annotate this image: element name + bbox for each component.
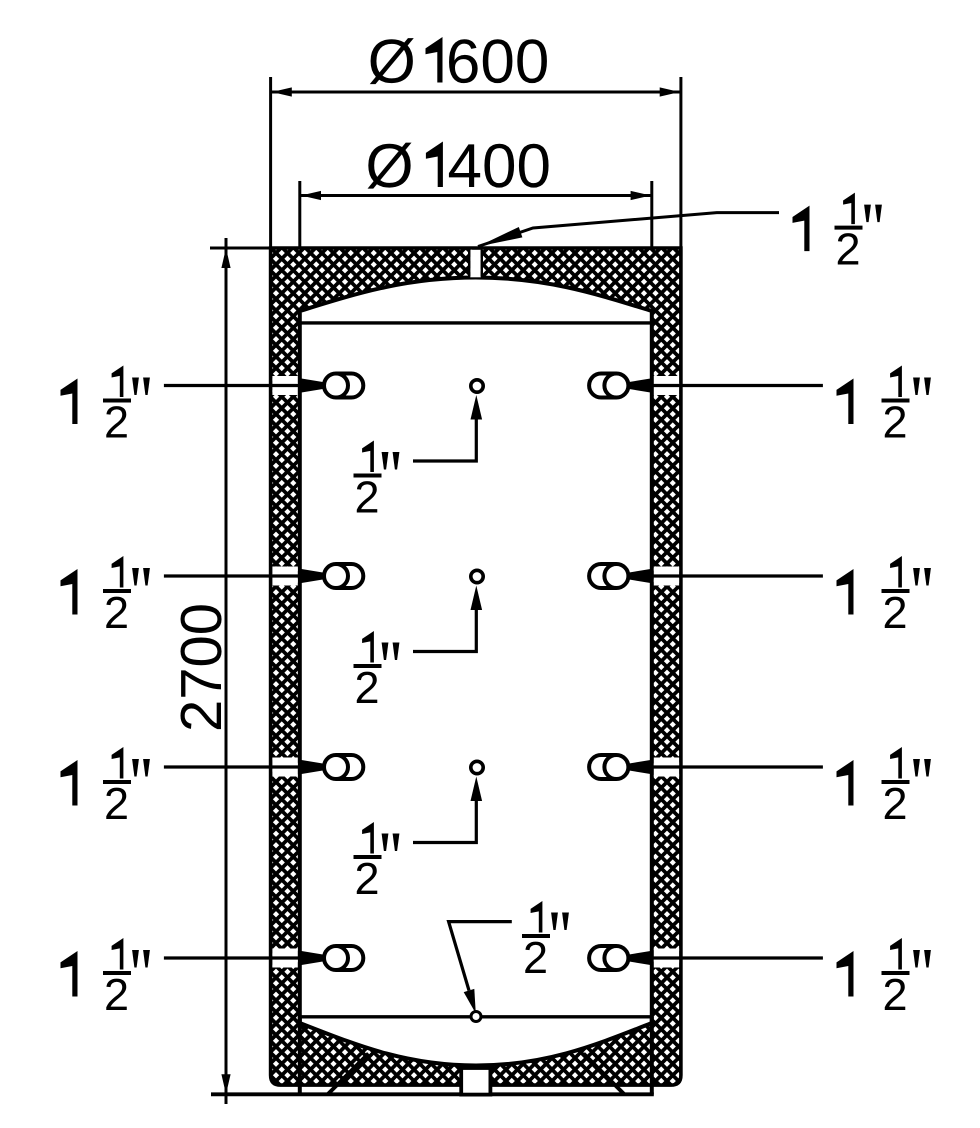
sensor well leader row 1 — [413, 419, 476, 462]
fraction 1/2 — [890, 556, 902, 588]
shell bottom line — [300, 1015, 652, 1018]
right skirt wall — [650, 1017, 654, 1095]
fraction 1/2 — [112, 366, 124, 398]
right connection row 4 — [589, 946, 616, 970]
right connection row 2 — [589, 564, 616, 588]
sensor well leader row 2 — [413, 609, 476, 652]
dimension 2700 line — [225, 238, 228, 1104]
fraction 1/2 — [890, 938, 902, 970]
label 1 1/2 inch right row 1 — [837, 379, 854, 425]
weld line top head — [300, 321, 652, 324]
drain connection — [461, 1068, 490, 1095]
left connection row 3 — [336, 755, 363, 779]
insulation body with crosshatch — [271, 248, 681, 1085]
label 1 1/2 inch right row 2 — [837, 569, 854, 615]
right leader row 4 — [650, 956, 823, 959]
bottom sensor leader — [449, 922, 512, 991]
sensor port row 3 — [471, 761, 483, 773]
svg-text:2: 2 — [354, 853, 379, 904]
svg-text:400: 400 — [448, 132, 551, 201]
fraction 1/2 — [362, 822, 374, 854]
right leader row 2 — [650, 574, 823, 577]
O1400 extension lines — [298, 181, 301, 249]
fraction 1/2 — [531, 901, 543, 933]
svg-text:2: 2 — [835, 224, 860, 275]
fraction 1/2 — [112, 747, 124, 779]
svg-text:2: 2 — [523, 932, 548, 983]
fraction 1/2 — [112, 556, 124, 588]
svg-text:2: 2 — [882, 778, 907, 829]
svg-text:Ø: Ø — [368, 28, 416, 97]
right support diagonal — [584, 1054, 625, 1095]
sensor well leader row 3 — [413, 800, 476, 843]
right connection row 1 — [589, 374, 616, 398]
svg-text:2: 2 — [882, 587, 907, 638]
left leader row 4 — [164, 956, 302, 959]
label 1 1/2 inch top right — [793, 206, 810, 252]
bottom sensor port — [471, 1012, 481, 1022]
svg-text:2: 2 — [104, 587, 129, 638]
svg-text:2700: 2700 — [169, 603, 234, 732]
dimension O1600 line — [272, 91, 680, 94]
svg-text:600: 600 — [446, 28, 549, 97]
left leader row 1 — [164, 384, 302, 387]
dimension O1400 line — [301, 194, 651, 197]
top nozzle leader — [478, 213, 779, 247]
right leader row 3 — [650, 765, 823, 768]
fraction 1/2 — [890, 747, 902, 779]
left skirt wall — [298, 1017, 302, 1095]
label 1 1/2 inch left row 2 — [61, 569, 78, 615]
left leader row 2 — [164, 574, 302, 577]
fraction 1/2 — [362, 441, 374, 473]
fraction 1/2 — [112, 938, 124, 970]
svg-text:2: 2 — [104, 397, 129, 448]
svg-text:2: 2 — [354, 472, 379, 523]
sensor port row 1 — [471, 380, 483, 392]
svg-text:2: 2 — [882, 397, 907, 448]
label 1 1/2 inch right row 4 — [837, 951, 854, 997]
left support diagonal — [328, 1054, 369, 1095]
sensor port row 2 — [471, 570, 483, 582]
bottom extension / feet base line — [211, 1092, 654, 1096]
svg-text:2: 2 — [882, 969, 907, 1020]
label 1 1/2 inch left row 1 — [61, 379, 78, 425]
O1600 extension lines — [269, 77, 272, 250]
fraction 1/2 — [890, 366, 902, 398]
svg-text:2: 2 — [104, 778, 129, 829]
nozzle gaps in insulation — [272, 376, 297, 395]
left connection row 4 — [336, 946, 363, 970]
right connection row 3 — [589, 755, 616, 779]
fraction 1/2 — [843, 193, 855, 225]
left leader row 3 — [164, 765, 302, 768]
top nozzle slot — [470, 250, 480, 277]
svg-text:2: 2 — [104, 969, 129, 1020]
label 1 1/2 inch left row 3 — [61, 760, 78, 806]
left connection row 2 — [336, 564, 363, 588]
label 1 1/2 inch left row 4 — [61, 951, 78, 997]
2700 top extension line — [210, 247, 272, 250]
svg-text:Ø: Ø — [365, 132, 413, 201]
fraction 1/2 — [362, 631, 374, 663]
left connection row 1 — [336, 374, 363, 398]
label 1 1/2 inch right row 3 — [837, 760, 854, 806]
tank vessel interior — [300, 278, 652, 1066]
right leader row 1 — [650, 384, 823, 387]
svg-text:2: 2 — [354, 662, 379, 713]
